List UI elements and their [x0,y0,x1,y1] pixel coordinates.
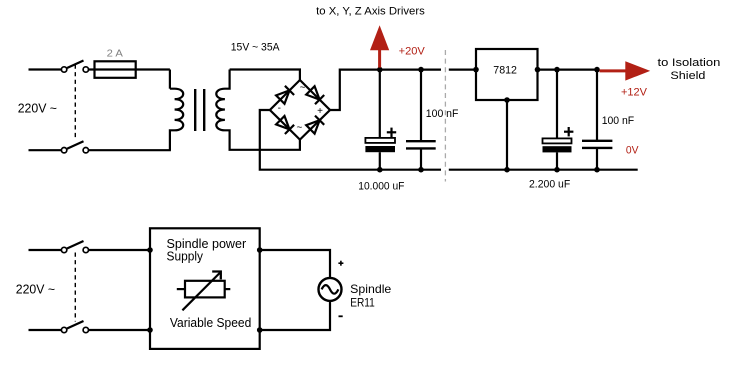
junction dot arrow base [377,67,383,73]
junction dot C1 bottom [377,167,383,173]
junction dot box out top [257,247,263,253]
arrow +12V right [600,61,651,80]
junction dot box out bottom [257,327,263,333]
svg-text:ER11: ER11 [350,295,375,309]
arrow +20V up [370,25,389,67]
wire bridge + output up to rail [330,70,441,110]
junction dot box in bottom [147,327,153,333]
capacitor C3 wire bottom [556,152,558,169]
wire fuse to transformer [169,70,171,89]
wire L2 input [29,249,62,251]
switch link dashed [74,65,76,141]
wire box to motor top [260,250,330,278]
junction dot 7812 out [535,67,541,73]
junction dot C4 bottom [594,167,600,173]
svg-text:+12V: +12V [621,86,647,98]
switch S2a [61,241,88,253]
junction dot 7812 in [473,67,479,73]
wire rail to 7812 [449,68,476,70]
svg-text:2.200 uF: 2.200 uF [529,179,570,191]
junction dot C2 bottom [418,167,424,173]
capacitor C1 plus sign [387,128,396,137]
diode D3 lower-left [276,116,294,134]
switch S1a [61,61,88,73]
spindle power supply box [150,228,260,349]
capacitor C3 plus sign [564,127,573,136]
diode D2 upper-right [306,86,324,104]
regulator U1 7812 [476,49,538,100]
svg-text:Shield: Shield [670,70,705,82]
wire secondary top to bridge [230,70,300,81]
wire N2 input [29,329,62,331]
svg-text:10.000 uF: 10.000 uF [358,181,404,193]
wire 7812 out rail [538,68,600,70]
switch S2b [61,321,88,333]
switch S1b [61,141,88,153]
wire to fuse [89,68,170,70]
svg-text:220V ~: 220V ~ [16,283,55,297]
junction dot 7812 gnd pin [504,97,510,103]
junction dot gnd rail [504,167,510,173]
svg-text:to X, Y, Z Axis Drivers: to X, Y, Z Axis Drivers [316,5,425,17]
label + motor [338,261,343,266]
switch link dashed bottom [74,253,76,322]
junction dot C4 top [594,67,600,73]
svg-text:2 A: 2 A [107,47,123,59]
svg-text:to Isolation: to Isolation [658,57,721,69]
capacitor C3 plates [543,138,572,143]
capacitor C2 100nF [406,70,436,170]
svg-text:7812: 7812 [493,65,517,77]
svg-text:15V ~ 35A: 15V ~ 35A [231,42,280,54]
svg-text:+20V: +20V [399,45,426,57]
transformer secondary coil [216,70,300,150]
dashed separator [444,50,446,182]
motor sine symbol [322,285,339,294]
svg-text:Supply: Supply [167,249,204,263]
wire 0V rail right part [449,169,638,171]
diode D4 lower-right [306,116,324,134]
capacitor C1 plates [365,138,395,143]
wire N input [29,149,62,151]
bridge rectifier diamond [270,80,330,140]
transformer core [194,89,196,131]
svg-text:Variable Speed: Variable Speed [170,316,251,330]
rheostat symbol [177,272,231,311]
junction dot box in top [147,247,153,253]
capacitor C1 wire bottom [379,152,381,170]
wire box to motor bottom [260,301,330,330]
capacitor C4 100nF [582,70,612,170]
svg-text:Spindle: Spindle [350,282,391,296]
motor M1 spindle [319,278,342,301]
wire to spindle box top [89,249,150,251]
diode D1 upper-left [276,86,294,104]
svg-text:220V ~: 220V ~ [18,101,57,115]
junction dot 100nF top [418,67,424,73]
label - motor [339,315,343,317]
svg-text:100 nF: 100 nF [602,115,635,127]
junction dot C3 bottom [554,167,560,173]
svg-text:-: - [278,103,281,114]
svg-text:~: ~ [296,123,302,134]
svg-text:~: ~ [300,83,306,94]
wire to spindle box bottom [89,329,150,331]
capacitor C3 2.200uF wire top [556,70,558,139]
wire L1 live input [29,68,62,70]
wire bridge - down to 0V rail [260,110,441,170]
fuse F1 2A [95,61,136,78]
wire 7812 gnd to rail [506,100,508,170]
capacitor C1 10.000uF wire top [379,70,381,138]
junction dot C3 top [554,67,560,73]
svg-text:+: + [317,106,323,117]
svg-text:0V: 0V [626,145,639,157]
svg-text:100 nF: 100 nF [426,108,459,120]
transformer T1 primary coil [170,89,183,151]
wire neutral bottom to primary [89,149,171,151]
